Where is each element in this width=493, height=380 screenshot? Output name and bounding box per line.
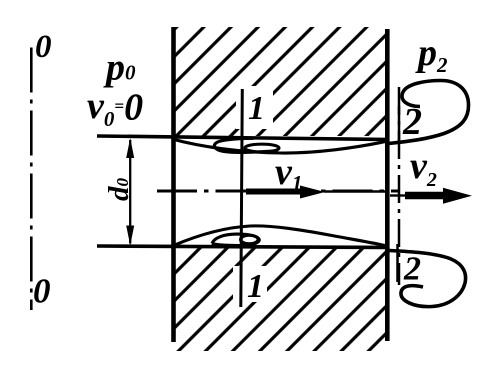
axis 0-0 xyxy=(30,48,33,311)
dimension d0 arrowhead top xyxy=(126,138,134,158)
svg-text:2: 2 xyxy=(402,101,422,143)
eddy top inner ellipse xyxy=(245,144,279,152)
dimension d0 line xyxy=(129,140,131,244)
velocity arrow v1 xyxy=(246,189,304,195)
section line 2-2 solid segment bottom xyxy=(396,244,399,282)
svg-text:0: 0 xyxy=(33,272,51,311)
white halo for label 1 top xyxy=(236,86,273,129)
streamline top (vena contracta) xyxy=(174,140,388,154)
wall right face xyxy=(385,29,390,341)
eddy top outer loop xyxy=(214,138,278,152)
wall hatching top xyxy=(176,27,386,136)
wall left face xyxy=(171,27,176,342)
svg-text:0: 0 xyxy=(35,29,52,65)
thin line after v1 arrow xyxy=(324,190,388,193)
eddy bottom inner ellipse xyxy=(241,235,259,243)
wall hatching bottom xyxy=(176,248,386,351)
center axis dash-dot xyxy=(157,189,400,192)
white halo for label 1 bottom xyxy=(233,266,267,302)
orifice top edge xyxy=(97,136,389,140)
dimension d0 arrowhead bottom xyxy=(126,226,134,246)
vortex spiral top xyxy=(389,81,469,144)
section line 1-1 xyxy=(241,89,243,307)
vortex spiral bottom xyxy=(389,251,466,307)
velocity arrow v2 xyxy=(390,194,406,196)
section line 2-2 xyxy=(398,87,401,285)
orifice bottom edge xyxy=(97,246,389,248)
eddy bottom outer ellipse xyxy=(212,234,259,246)
section line 2-2 solid segment top xyxy=(398,106,401,143)
streamline bottom (vena contracta) xyxy=(174,226,386,246)
svg-text:1: 1 xyxy=(248,90,265,127)
svg-text:1: 1 xyxy=(247,268,264,305)
svg-text:2: 2 xyxy=(403,251,421,288)
